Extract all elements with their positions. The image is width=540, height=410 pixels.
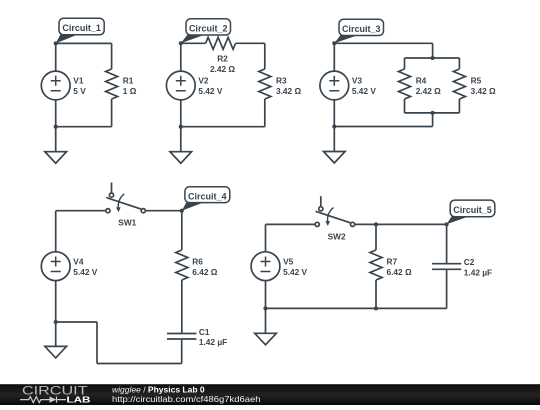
- wire top net Circuit_1 (node A to R1): [56, 42, 112, 44]
- junction node Circuit_3 bottom/ground: [332, 124, 336, 128]
- svg-text:http://circuitlab.com/cf486g7k: http://circuitlab.com/cf486g7kd6aeh: [112, 394, 261, 404]
- svg-text:LAB: LAB: [67, 395, 91, 405]
- wire ground stub circuit 5: [265, 308, 267, 333]
- wire R5 top lead: [458, 58, 460, 69]
- svg-text:3.42 Ω: 3.42 Ω: [276, 86, 301, 96]
- node flag Circuit_5: [447, 200, 495, 224]
- svg-text:R6: R6: [192, 257, 203, 267]
- junction node Circuit_3 top: [332, 41, 336, 45]
- ground symbol (circuit 2): [170, 152, 192, 164]
- wire R3 bottom lead: [264, 99, 266, 127]
- svg-text:Circuit_5: Circuit_5: [453, 205, 492, 215]
- wire R6 to C1 top plate: [181, 280, 183, 334]
- junction node Circuit_1 top: [54, 41, 58, 45]
- junction node Circuit_5 bottom/ground: [263, 306, 267, 310]
- capacitor C2 1.42 &#181;F: [432, 264, 461, 270]
- wire V2 top lead: [180, 43, 182, 71]
- svg-text:3.42 Ω: 3.42 Ω: [471, 86, 496, 96]
- wire bottom net (R3 to V2-): [181, 126, 265, 128]
- svg-text:Circuit_2: Circuit_2: [189, 24, 228, 34]
- svg-text:R3: R3: [276, 76, 287, 86]
- svg-text:6.42 Ω: 6.42 Ω: [192, 267, 217, 277]
- wire drop to parallel top bar: [432, 43, 434, 58]
- wire V1 bottom lead: [55, 100, 57, 127]
- wire R1 bottom lead: [111, 99, 113, 127]
- wire SW1 right terminal to node: [145, 210, 181, 212]
- junction node Circuit_1 bottom/ground: [54, 125, 58, 129]
- ground symbol (circuit 3): [324, 152, 346, 164]
- wire R4 top lead: [404, 58, 406, 69]
- node flag Circuit_4: [182, 187, 230, 211]
- svg-text:V3: V3: [352, 76, 363, 86]
- wire R2 right lead to R3: [236, 42, 265, 44]
- svg-text:2.42 Ω: 2.42 Ω: [210, 64, 235, 74]
- svg-text:C2: C2: [464, 257, 475, 267]
- wire V5 top lead: [265, 224, 267, 252]
- node flag Circuit_3: [334, 19, 383, 43]
- junction node Circuit_4 bottom/ground: [54, 320, 58, 324]
- junction junction R7 top: [374, 222, 378, 226]
- voltage source V4 5.42 V: [41, 252, 70, 281]
- resistor R7: [370, 250, 382, 280]
- ground symbol (circuit 5): [255, 333, 277, 345]
- wire C2 bottom lead: [446, 269, 448, 308]
- svg-text:6.42 Ω: 6.42 Ω: [387, 267, 412, 277]
- wire ground stub circuit 2: [180, 127, 182, 152]
- node flag Circuit_1: [56, 18, 104, 43]
- wire top net V3+ to parallel pair: [334, 42, 432, 44]
- wire R3 top lead: [264, 43, 266, 69]
- ground symbol (circuit 1): [45, 152, 67, 164]
- wire bottom net (R1 to V1-): [56, 126, 112, 128]
- CircuitLab logo: [20, 384, 91, 405]
- svg-text:5.42 V: 5.42 V: [283, 267, 307, 277]
- ground symbol (circuit 4): [45, 346, 67, 358]
- wire bottom net to V3-: [334, 126, 432, 128]
- resistor R3: [259, 69, 271, 99]
- voltage source V3 5.42 V: [320, 71, 349, 100]
- voltage source V5 5.42 V: [251, 252, 280, 281]
- wire ground stub circuit 3: [333, 127, 335, 152]
- svg-text:1.42 µF: 1.42 µF: [464, 268, 492, 278]
- wire ground stub circuit 1: [55, 127, 57, 152]
- svg-text:5.42 V: 5.42 V: [73, 267, 97, 277]
- wire V1 top lead: [55, 43, 57, 71]
- junction junction parallel bottom: [431, 111, 435, 115]
- wire node to R2 left lead: [181, 42, 206, 44]
- voltage source V2 5.42 V: [166, 71, 195, 100]
- svg-text:1.42 µF: 1.42 µF: [199, 337, 227, 347]
- wire V3 top lead: [333, 43, 335, 71]
- svg-text:Circuit_4: Circuit_4: [188, 192, 227, 202]
- wire bottom return wire: [97, 363, 182, 365]
- wire parallel bottom bar: [405, 112, 460, 114]
- wire C2 top lead: [446, 224, 448, 263]
- wire SW2 right terminal to C2 node: [355, 223, 447, 225]
- wire V5 bottom lead: [265, 281, 267, 309]
- switch SW1 (SPDT toggle, open): [106, 183, 146, 228]
- wire return to V4- node: [56, 321, 97, 323]
- svg-text:SW1: SW1: [118, 218, 136, 228]
- resistor R2: [206, 37, 236, 49]
- junction node Circuit_2 top: [179, 41, 183, 45]
- wire V4+ to SW1 left terminal: [56, 210, 106, 212]
- wire V5+ to SW2 left terminal: [266, 223, 316, 225]
- resistor R4: [399, 69, 411, 99]
- wire C1 bottom lead: [181, 339, 183, 364]
- wire parallel top bar: [405, 57, 460, 59]
- wire R5 bottom lead: [458, 99, 460, 113]
- svg-text:5.42 V: 5.42 V: [198, 86, 222, 96]
- wire V2 bottom lead: [180, 100, 182, 127]
- svg-text:SW2: SW2: [328, 231, 346, 241]
- resistor R1: [106, 69, 118, 99]
- junction node Circuit_2 bottom/ground: [179, 125, 183, 129]
- svg-text:V4: V4: [73, 256, 84, 266]
- wire V4 top lead: [55, 211, 57, 252]
- wire R7 top lead: [375, 224, 377, 250]
- svg-text:Circuit_1: Circuit_1: [62, 23, 101, 33]
- resistor R6: [176, 250, 188, 280]
- svg-text:R5: R5: [471, 76, 482, 86]
- svg-text:Circuit_3: Circuit_3: [342, 24, 381, 34]
- wire drop from parallel bottom bar: [432, 113, 434, 127]
- wire ground stub circuit 4: [55, 322, 57, 346]
- node flag Circuit_2: [181, 19, 231, 44]
- wire V3 bottom lead: [333, 100, 335, 127]
- junction junction R7 bottom: [374, 306, 378, 310]
- svg-text:R1: R1: [123, 76, 134, 86]
- switch SW2 (SPDT toggle, open): [315, 196, 355, 241]
- junction node Circuit_4 top: [180, 209, 184, 213]
- svg-text:C1: C1: [199, 327, 210, 337]
- svg-text:V1: V1: [73, 76, 84, 86]
- junction junction parallel top: [431, 56, 435, 60]
- svg-text:1 Ω: 1 Ω: [123, 86, 137, 96]
- junction node Circuit_5 top: [445, 222, 449, 226]
- svg-text:2.42 Ω: 2.42 Ω: [416, 86, 441, 96]
- svg-text:R2: R2: [217, 53, 228, 63]
- wire R7 bottom lead: [375, 280, 377, 308]
- wire R4 bottom lead: [404, 99, 406, 113]
- svg-text:R7: R7: [387, 257, 398, 267]
- wire R6 top lead: [181, 211, 183, 250]
- svg-text:R4: R4: [416, 76, 427, 86]
- voltage source V1 5 V: [41, 71, 70, 100]
- svg-text:V2: V2: [198, 76, 209, 86]
- wire V4 bottom lead: [55, 281, 57, 322]
- svg-text:5 V: 5 V: [73, 86, 86, 96]
- svg-text:5.42 V: 5.42 V: [352, 86, 376, 96]
- svg-text:V5: V5: [283, 256, 294, 266]
- wire bottom net circuit 5: [266, 307, 447, 309]
- wire R1 top lead: [111, 43, 113, 69]
- resistor R5: [453, 69, 465, 99]
- wire bottom return riser: [96, 322, 98, 364]
- capacitor C1 1.42 &#181;F: [167, 334, 196, 340]
